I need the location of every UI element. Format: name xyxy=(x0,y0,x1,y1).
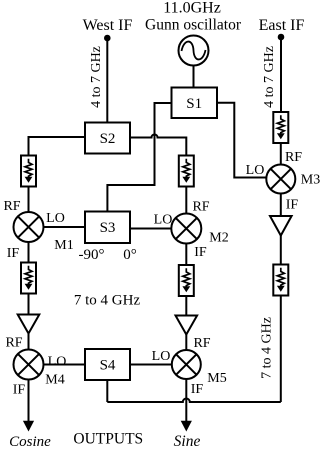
svg-text:S2: S2 xyxy=(100,131,116,147)
mixer M3 xyxy=(266,165,295,194)
attenuator R4 xyxy=(21,263,36,294)
node West IF terminal xyxy=(104,35,111,42)
wire R5 to A2 xyxy=(185,296,187,316)
svg-text:RF: RF xyxy=(285,150,302,165)
svg-text:LO: LO xyxy=(46,211,65,226)
wire A3 to R6 xyxy=(280,236,282,265)
amplifier A1 xyxy=(18,315,40,334)
node East IF terminal xyxy=(278,34,285,41)
wire S4 right output to M5 LO xyxy=(130,364,172,366)
svg-text:IF: IF xyxy=(191,382,204,397)
wire S1 right output to M3 LO xyxy=(217,103,266,178)
svg-text:West IF: West IF xyxy=(83,17,133,34)
svg-text:LO: LO xyxy=(152,349,171,364)
wire A2 to M5 RF xyxy=(185,335,187,351)
wire R6 down the east side xyxy=(280,296,282,403)
wire M4 IF output xyxy=(28,380,30,422)
mixer M5 xyxy=(172,350,201,379)
splitter S2 xyxy=(85,123,130,154)
svg-text:4 to 7 GHz: 4 to 7 GHz xyxy=(89,46,104,108)
wire R4 to A1 xyxy=(28,294,30,315)
wire R1 to M1 RF xyxy=(28,187,30,213)
svg-text:OUTPUTS: OUTPUTS xyxy=(73,431,143,448)
mixer M4 xyxy=(14,350,44,380)
svg-text:IF: IF xyxy=(13,383,26,398)
svg-text:M5: M5 xyxy=(207,371,226,386)
svg-text:S4: S4 xyxy=(100,358,116,374)
svg-text:7 to 4 GHz: 7 to 4 GHz xyxy=(74,293,141,309)
svg-text:RF: RF xyxy=(192,200,209,215)
wire S1 left output to S3 input xyxy=(107,103,171,212)
svg-text:LO: LO xyxy=(154,213,173,228)
svg-text:M4: M4 xyxy=(45,373,64,388)
svg-text:4 to 7 GHz: 4 to 7 GHz xyxy=(262,46,277,108)
wire oscillator to S1 xyxy=(193,66,195,88)
splitter S1 xyxy=(172,88,218,119)
wire S4 input from bottom xyxy=(106,380,108,402)
wire M5 IF output xyxy=(185,379,187,421)
arrow Cosine output xyxy=(23,421,34,432)
svg-text:11.0GHz: 11.0GHz xyxy=(163,0,221,17)
svg-text:IF: IF xyxy=(194,245,207,260)
svg-text:M3: M3 xyxy=(301,173,320,188)
amplifier A3 xyxy=(270,216,292,236)
wire M1 IF to R4 xyxy=(28,242,30,263)
attenuator R6 xyxy=(273,265,288,296)
attenuator R5 xyxy=(179,265,194,296)
attenuator R3 xyxy=(273,112,288,143)
arrow Sine output xyxy=(181,421,192,432)
splitter S4 xyxy=(85,349,130,380)
wire West IF to S2 xyxy=(106,38,108,123)
svg-text:M1: M1 xyxy=(54,238,73,253)
wire A1 to M4 RF xyxy=(28,334,30,350)
svg-text:Cosine: Cosine xyxy=(9,434,51,450)
wire S3 left output to M1 LO xyxy=(44,226,86,228)
svg-text:-90°: -90° xyxy=(79,247,105,263)
attenuator R2 xyxy=(179,156,194,187)
wire S3 right output to M2 LO xyxy=(130,228,171,230)
wire bottom horizontal with hop over M5 IF xyxy=(107,399,280,403)
amplifier A2 xyxy=(176,316,198,335)
splitter S3 xyxy=(85,212,130,244)
svg-text:RF: RF xyxy=(5,336,22,351)
svg-text:S3: S3 xyxy=(100,220,116,236)
attenuator R1 xyxy=(21,156,36,187)
wire R3 to M3 RF xyxy=(280,143,282,165)
mixer M1 xyxy=(14,212,44,242)
wire East IF to R3 xyxy=(280,37,282,113)
wire M3 IF to A3 xyxy=(280,194,282,217)
svg-text:0°: 0° xyxy=(123,247,137,263)
svg-text:Gunn oscillator: Gunn oscillator xyxy=(145,17,242,34)
svg-text:RF: RF xyxy=(3,199,20,214)
wire S4 left output to M4 LO xyxy=(44,364,86,366)
svg-text:IF: IF xyxy=(286,198,299,213)
wire S2 right output to R2 with hop xyxy=(130,135,186,156)
svg-text:7 to 4 GHz: 7 to 4 GHz xyxy=(260,317,275,379)
Gunn oscillator symbol xyxy=(179,36,209,66)
mixer M2 xyxy=(171,214,201,244)
svg-text:IF: IF xyxy=(7,246,20,261)
svg-text:M2: M2 xyxy=(209,231,228,246)
svg-text:East IF: East IF xyxy=(259,17,305,34)
wire M2 IF to R5 xyxy=(185,244,187,266)
svg-text:S1: S1 xyxy=(186,96,202,112)
svg-text:LO: LO xyxy=(48,355,67,370)
svg-text:RF: RF xyxy=(193,336,210,351)
svg-text:LO: LO xyxy=(246,163,265,178)
svg-text:Sine: Sine xyxy=(174,433,201,450)
wire R2 to M2 RF xyxy=(185,187,187,214)
wire S2 left output to R1 xyxy=(29,137,86,156)
